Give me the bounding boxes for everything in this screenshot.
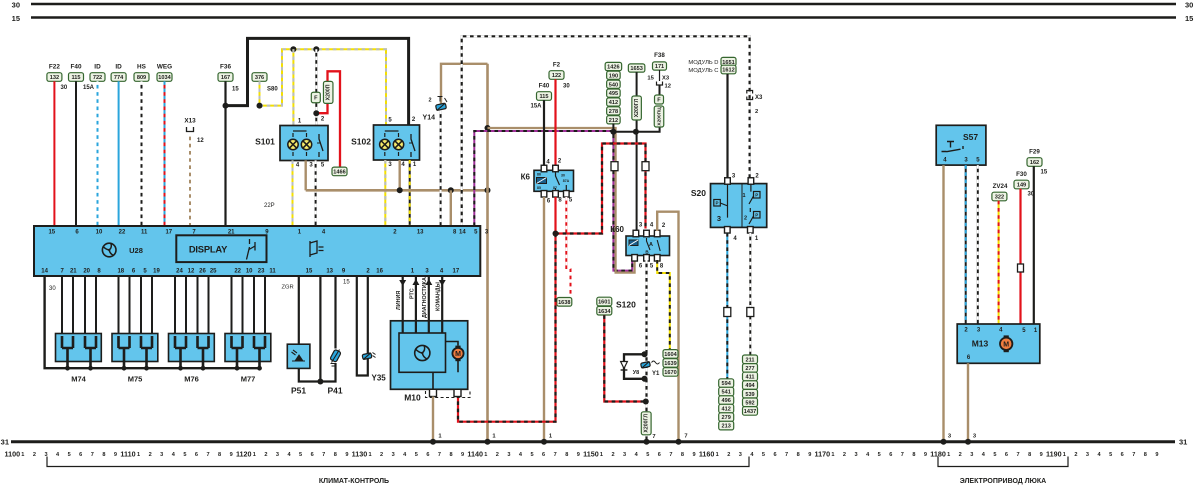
wire S101_pin5_out	[315, 160, 317, 226]
svg-text:1604: 1604	[664, 352, 677, 358]
svg-text:15: 15	[1041, 170, 1048, 176]
connector label c1670	[663, 368, 678, 377]
svg-text:22: 22	[119, 229, 126, 235]
svg-text:ДИАГНОСТИКА: ДИАГНОСТИКА	[422, 277, 428, 318]
wire M10_w2	[428, 276, 430, 333]
svg-text:212: 212	[609, 118, 618, 124]
svg-text:КЛИМАТ-КОНТРОЛЬ: КЛИМАТ-КОНТРОЛЬ	[319, 478, 389, 485]
svg-text:22P: 22P	[264, 203, 275, 209]
svg-text:1601: 1601	[598, 300, 610, 306]
svg-text:1: 1	[253, 452, 256, 458]
svg-text:494: 494	[745, 383, 755, 389]
svg-text:5: 5	[1109, 452, 1112, 458]
svg-text:12: 12	[197, 138, 204, 144]
svg-text:594: 594	[722, 381, 732, 387]
node M13_gnd_node	[965, 439, 971, 445]
connector label cA496	[719, 396, 734, 405]
connector label F_box2	[655, 95, 664, 104]
svg-text:21: 21	[70, 268, 77, 274]
wire P41_wire	[334, 276, 336, 349]
connector label c1426	[605, 62, 622, 70]
node K60_bw_gnd	[644, 439, 650, 445]
svg-text:1426: 1426	[607, 65, 619, 71]
svg-text:ЭЛЕКТРОПРИВОД ЛЮКА: ЭЛЕКТРОПРИВОД ЛЮКА	[960, 478, 1046, 485]
node K6_red_node	[553, 231, 559, 237]
svg-text:540: 540	[609, 82, 618, 88]
svg-text:3: 3	[970, 452, 973, 458]
connector label c412	[607, 98, 621, 106]
connector label cB1437	[743, 407, 758, 416]
connector label cB211	[743, 355, 758, 364]
wire ID774_wire	[118, 81, 120, 226]
svg-text:171: 171	[655, 64, 664, 70]
svg-text:25: 25	[210, 268, 217, 274]
node S80_node2	[313, 46, 319, 52]
svg-text:F30: F30	[1016, 171, 1027, 178]
connector label cA541	[719, 387, 734, 396]
wire F36_branch_S102	[226, 38, 409, 125]
svg-text:У8: У8	[633, 370, 639, 376]
node Y8_bot_node	[642, 376, 648, 382]
connector label X200GL_top	[632, 96, 642, 120]
svg-text:F: F	[314, 96, 318, 102]
svg-text:1140: 1140	[467, 449, 483, 458]
node pair_junction	[610, 129, 616, 135]
connector label X200PC_box	[654, 106, 664, 127]
connector label X200GL_bot	[641, 412, 651, 435]
wire M77_w242	[242, 276, 244, 334]
svg-text:К60: К60	[610, 225, 624, 234]
svg-text:15: 15	[232, 87, 239, 93]
wire WEG1034_wire	[164, 81, 166, 226]
wire X13_wire	[189, 133, 191, 226]
svg-text:1: 1	[947, 452, 950, 458]
connector label WEG1034_box	[157, 73, 172, 82]
wire F30_wire	[1019, 189, 1021, 324]
svg-text:3: 3	[507, 452, 510, 458]
svg-text:376: 376	[255, 75, 264, 81]
svg-text:7: 7	[652, 434, 655, 440]
svg-text:1: 1	[831, 452, 834, 458]
wire c212_drop	[612, 124, 614, 132]
svg-text:X13: X13	[184, 118, 196, 125]
svg-text:Х200ПЦ: Х200ПЦ	[656, 107, 662, 126]
svg-text:1120: 1120	[236, 449, 252, 458]
node P51_node	[317, 379, 323, 385]
svg-text:495: 495	[609, 91, 618, 97]
svg-text:1: 1	[600, 452, 603, 458]
wire c1653_drop	[636, 72, 638, 231]
wire ZV24_wire	[998, 201, 1000, 324]
svg-text:9: 9	[1155, 452, 1158, 458]
wire M10_w3	[441, 276, 443, 333]
svg-text:S80: S80	[267, 87, 278, 93]
svg-text:115: 115	[71, 75, 80, 81]
svg-text:2: 2	[727, 452, 730, 458]
svg-text:2: 2	[33, 452, 36, 458]
svg-text:2: 2	[959, 452, 962, 458]
svg-text:S57: S57	[963, 132, 978, 142]
svg-text:ZGR: ZGR	[282, 285, 294, 291]
svg-text:5: 5	[68, 452, 71, 458]
connector label ZV24_box	[992, 192, 1007, 201]
node bus_node_right	[485, 187, 491, 193]
svg-text:1653: 1653	[630, 66, 642, 72]
wire S57_pin4_brown	[942, 165, 944, 442]
svg-text:Y14: Y14	[423, 115, 436, 122]
svg-text:М75: М75	[128, 375, 143, 384]
wire M10_w0	[402, 276, 404, 333]
svg-text:P41: P41	[327, 386, 342, 396]
svg-text:30: 30	[563, 84, 570, 90]
wire 1466_red	[316, 71, 340, 168]
svg-text:2: 2	[496, 452, 499, 458]
wire K6_pin6_brown	[543, 197, 545, 442]
svg-text:122: 122	[552, 73, 561, 79]
svg-text:30: 30	[49, 286, 56, 292]
bus 30 (top rail)	[31, 3, 1176, 6]
svg-text:6: 6	[426, 452, 429, 458]
connector label F30_box	[1014, 180, 1029, 189]
svg-text:Х200ГЛ: Х200ГЛ	[644, 414, 650, 433]
wire P41_bot	[320, 363, 335, 382]
connector label K6_F2	[549, 71, 564, 80]
svg-text:8: 8	[1028, 452, 1031, 458]
wire K6_pin5_rw	[566, 197, 570, 294]
svg-text:15: 15	[343, 280, 350, 286]
svg-text:1170: 1170	[815, 449, 831, 458]
svg-text:6: 6	[79, 452, 82, 458]
svg-text:211: 211	[745, 357, 754, 363]
connector label c1651	[721, 57, 736, 66]
svg-text:7: 7	[669, 452, 672, 458]
node brown_vert_node31	[485, 439, 491, 445]
svg-text:18: 18	[117, 268, 124, 274]
wire F38_drop	[659, 85, 661, 95]
svg-text:7: 7	[785, 452, 788, 458]
connector label F38_box	[653, 62, 667, 70]
node M74_tap1	[88, 366, 93, 371]
svg-text:М77: М77	[241, 375, 256, 384]
connector label c495	[607, 89, 621, 97]
connector label F40_box	[69, 73, 84, 82]
svg-text:278: 278	[609, 109, 618, 115]
svg-text:322: 322	[995, 195, 1004, 201]
svg-text:F38: F38	[654, 52, 665, 59]
svg-text:РТС: РТС	[409, 288, 415, 299]
svg-text:P: P	[715, 201, 718, 206]
svg-text:M10: M10	[404, 393, 421, 403]
svg-text:8: 8	[449, 452, 452, 458]
svg-text:213: 213	[722, 424, 731, 430]
svg-text:M: M	[455, 351, 461, 358]
svg-text:1670: 1670	[664, 370, 676, 376]
wire M76_w197	[197, 276, 199, 334]
svg-text:9: 9	[924, 452, 927, 458]
wire Y8_frame	[624, 354, 645, 379]
svg-text:DISPLAY: DISPLAY	[189, 244, 228, 255]
svg-text:9: 9	[230, 452, 233, 458]
connector label cA279	[719, 413, 734, 422]
connector label F29_box	[1027, 158, 1042, 167]
svg-text:11: 11	[141, 229, 148, 235]
wire P51_right	[299, 276, 321, 382]
svg-text:X3: X3	[662, 76, 670, 82]
svg-text:S120: S120	[616, 300, 636, 310]
svg-text:HS: HS	[137, 64, 147, 71]
svg-text:87A: 87A	[563, 179, 570, 183]
svg-text:М76: М76	[184, 375, 199, 384]
wire F22_wire	[53, 81, 55, 226]
connector label 376_box	[252, 73, 267, 82]
connector label cA213	[719, 421, 734, 430]
svg-text:S102: S102	[351, 137, 371, 147]
wire rb_to_M10	[458, 234, 556, 422]
svg-text:1634: 1634	[598, 309, 611, 315]
svg-text:8: 8	[797, 452, 800, 458]
switch S101	[280, 126, 328, 161]
svg-text:592: 592	[745, 400, 754, 406]
wire F40_wire	[75, 81, 77, 226]
svg-text:2: 2	[149, 452, 152, 458]
svg-text:5: 5	[183, 452, 186, 458]
svg-text:ID: ID	[115, 64, 122, 71]
svg-text:9: 9	[114, 452, 117, 458]
svg-text:5: 5	[415, 452, 418, 458]
svg-text:F22: F22	[49, 64, 60, 71]
svg-text:30: 30	[1185, 0, 1193, 9]
svg-text:F40: F40	[539, 83, 550, 90]
svg-text:2: 2	[1074, 452, 1077, 458]
node bus_node_S102	[397, 187, 403, 193]
wire S102_pin4_out	[399, 160, 401, 190]
wire Y14_bottom	[440, 111, 442, 227]
wire S57_pin3_wire	[965, 165, 967, 324]
wire M77_w265	[264, 276, 266, 334]
svg-text:9: 9	[577, 452, 580, 458]
wire steppers_common	[45, 276, 260, 368]
wire brown_bus_mid	[306, 189, 488, 192]
svg-text:7: 7	[1132, 452, 1135, 458]
valve Y1	[641, 361, 651, 368]
svg-text:7: 7	[438, 452, 441, 458]
svg-text:3: 3	[1086, 452, 1089, 458]
node M75_tap1	[144, 366, 149, 371]
svg-text:WEG: WEG	[157, 64, 172, 71]
node Y8_top_node	[642, 351, 648, 357]
svg-text:1: 1	[484, 452, 487, 458]
svg-text:8: 8	[912, 452, 915, 458]
svg-text:31: 31	[1179, 438, 1187, 447]
wire F36_drop	[224, 81, 226, 226]
svg-text:85: 85	[537, 186, 541, 190]
svg-text:8: 8	[218, 452, 221, 458]
connector label c1638	[557, 298, 572, 307]
svg-text:8: 8	[565, 452, 568, 458]
svg-text:115: 115	[539, 94, 548, 100]
node c1653_node	[633, 129, 639, 135]
node S120_node	[643, 399, 649, 405]
svg-text:30: 30	[12, 0, 20, 9]
node M76_tap1	[201, 366, 206, 371]
U28 flag icon	[310, 241, 317, 257]
wire brown_main_vert	[486, 64, 489, 442]
svg-text:15A: 15A	[83, 85, 95, 91]
svg-text:26: 26	[199, 268, 206, 274]
wire S120_wire	[604, 315, 646, 401]
svg-text:8: 8	[102, 452, 105, 458]
wire Y35_loop	[357, 276, 368, 376]
svg-text:23: 23	[258, 268, 265, 274]
svg-text:2: 2	[755, 109, 758, 115]
node S80_node1	[290, 46, 296, 52]
svg-text:U28: U28	[129, 246, 143, 255]
svg-text:15: 15	[1185, 14, 1193, 23]
wire S57_pin5_wire	[977, 165, 979, 324]
svg-text:F36: F36	[220, 64, 231, 71]
wire S80_bus	[260, 49, 387, 125]
svg-text:10: 10	[246, 268, 253, 274]
wire Y14_top_brown	[441, 64, 488, 104]
svg-text:15: 15	[306, 268, 313, 274]
svg-text:1: 1	[1063, 452, 1066, 458]
svg-text:P51: P51	[291, 386, 306, 396]
svg-text:7: 7	[206, 452, 209, 458]
svg-text:7: 7	[91, 452, 94, 458]
svg-text:22: 22	[234, 268, 241, 274]
node M75_tap0	[122, 366, 127, 371]
svg-text:5: 5	[299, 452, 302, 458]
svg-text:ЛИНИЯ: ЛИНИЯ	[396, 291, 402, 310]
wire M77_w254	[253, 276, 255, 334]
connector label c190	[607, 71, 621, 79]
node M77_tap0	[235, 366, 240, 371]
svg-text:1466: 1466	[333, 170, 345, 176]
connector label cB592	[743, 398, 758, 407]
node F36_junction	[223, 103, 229, 109]
svg-text:3: 3	[717, 214, 721, 223]
svg-text:15: 15	[48, 229, 55, 235]
svg-text:149: 149	[1017, 183, 1026, 189]
svg-text:15A: 15A	[530, 104, 542, 110]
svg-text:F40: F40	[70, 64, 81, 71]
connector label ID722_box	[90, 73, 105, 82]
svg-text:5: 5	[993, 452, 996, 458]
svg-text:12: 12	[665, 84, 671, 90]
wire rb_to_K60pin4	[556, 144, 646, 234]
svg-text:277: 277	[745, 366, 754, 372]
wire M74_w62	[61, 276, 63, 334]
connector label ID774_box	[111, 73, 126, 82]
node S57_gnd_node	[941, 439, 947, 445]
wire K6_pin2_wire	[554, 79, 556, 166]
svg-text:2: 2	[744, 216, 747, 222]
connector label X200P_box	[323, 81, 333, 103]
svg-text:1612: 1612	[722, 68, 734, 74]
svg-text:14: 14	[459, 229, 466, 235]
svg-text:20: 20	[83, 268, 90, 274]
svg-text:190: 190	[609, 73, 618, 79]
svg-text:M13: M13	[972, 339, 989, 349]
svg-text:F29: F29	[1029, 149, 1040, 156]
bracket sunroof drive	[938, 457, 1068, 467]
switch S102	[374, 125, 420, 160]
svg-text:496: 496	[722, 398, 731, 404]
svg-text:1437: 1437	[744, 409, 756, 415]
svg-text:6: 6	[195, 452, 198, 458]
svg-text:5: 5	[646, 452, 649, 458]
svg-text:9: 9	[1040, 452, 1043, 458]
wire S20_pin4_wire	[726, 233, 728, 379]
wire K60_pin5_bw	[645, 260, 647, 442]
connector X3 on frame	[747, 91, 753, 100]
svg-text:3: 3	[276, 452, 279, 458]
svg-text:5: 5	[878, 452, 881, 458]
wire K60_pin2_brown	[657, 212, 678, 442]
svg-text:7: 7	[684, 433, 687, 439]
svg-text:P: P	[755, 213, 758, 218]
svg-text:S101: S101	[255, 137, 275, 147]
wire black_mid_link	[613, 127, 659, 132]
wire M75_w141	[140, 276, 142, 334]
svg-text:1190: 1190	[1046, 449, 1062, 458]
connector label c212	[607, 116, 621, 124]
svg-text:1: 1	[368, 452, 371, 458]
connector label F_box	[311, 92, 320, 103]
svg-text:Y1: Y1	[652, 371, 660, 377]
node M10_gnd_node	[430, 439, 436, 445]
wire M10 internal feeds	[402, 321, 404, 333]
svg-text:412: 412	[722, 407, 731, 413]
connector label 1466_box	[332, 167, 347, 176]
svg-text:17: 17	[165, 229, 172, 235]
svg-text:167: 167	[221, 75, 230, 81]
svg-text:X3: X3	[755, 95, 763, 101]
svg-text:7: 7	[901, 452, 904, 458]
svg-text:1160: 1160	[699, 449, 715, 458]
svg-text:ZV24: ZV24	[993, 183, 1008, 190]
wire F29_wire	[1033, 166, 1035, 324]
svg-text:A: A	[649, 242, 653, 248]
svg-text:К6: К6	[521, 173, 531, 182]
wire M75_w118	[118, 276, 120, 334]
svg-text:6: 6	[889, 452, 892, 458]
svg-text:539: 539	[745, 392, 754, 398]
svg-text:МОДУЛЬ C: МОДУЛЬ C	[688, 68, 718, 74]
svg-text:5: 5	[762, 452, 765, 458]
svg-text:5: 5	[530, 452, 533, 458]
wire S20_pin1_wire	[749, 233, 751, 355]
svg-text:13: 13	[417, 229, 424, 235]
svg-text:8: 8	[1144, 452, 1147, 458]
connector label c1653	[628, 64, 645, 72]
wire brown_K60_pair	[488, 128, 635, 273]
svg-text:6: 6	[542, 452, 545, 458]
svg-text:15: 15	[647, 76, 654, 82]
svg-text:1: 1	[742, 193, 745, 199]
svg-text:17: 17	[453, 268, 460, 274]
connector label c1639	[663, 359, 678, 368]
svg-text:МОДУЛЬ D: МОДУЛЬ D	[688, 60, 718, 66]
svg-text:9: 9	[692, 452, 695, 458]
wire M75_w129	[129, 276, 131, 334]
svg-text:3: 3	[392, 452, 395, 458]
wire M10_w1	[415, 276, 417, 333]
svg-text:162: 162	[1030, 160, 1039, 166]
svg-text:8: 8	[681, 452, 684, 458]
wire modC_to_S20	[726, 74, 728, 178]
svg-text:F2: F2	[553, 62, 561, 69]
